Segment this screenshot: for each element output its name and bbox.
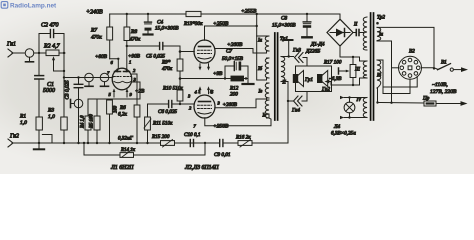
capacitor C2 bbox=[50, 30, 53, 38]
resistor R2 (volume pot) bbox=[46, 50, 65, 56]
svg-text:R14 1к: R14 1к bbox=[120, 148, 136, 153]
svg-text:~6,3В: ~6,3В bbox=[329, 76, 342, 82]
mains top wire bbox=[377, 27, 434, 69]
shield grommet on input wire bbox=[25, 49, 34, 62]
svg-text:R9*: R9* bbox=[161, 60, 171, 66]
svg-text:R15 200: R15 200 bbox=[151, 134, 170, 140]
resistor R9 bbox=[177, 52, 183, 91]
jack Гн3 chevron bbox=[295, 53, 304, 63]
svg-text:Iа: Iа bbox=[378, 33, 384, 38]
svg-text:С2 470: С2 470 bbox=[41, 22, 59, 29]
wire jack to speaker box bbox=[303, 58, 307, 67]
svg-text:Д1-Д4: Д1-Д4 bbox=[310, 41, 325, 48]
svg-text:Гр2: Гр2 bbox=[321, 87, 330, 93]
tube Л2 heater arrows bbox=[199, 64, 211, 71]
svg-text:Iб: Iб bbox=[257, 67, 263, 72]
wire secondary top to jack bbox=[281, 56, 294, 58]
tube Л2 grids bbox=[198, 50, 212, 53]
tube Л3 heater arrows bbox=[199, 86, 211, 94]
speaker wiring box bbox=[296, 66, 332, 92]
svg-text:С8: С8 bbox=[281, 16, 287, 22]
wire secondary bottom feedback bbox=[281, 82, 288, 144]
Тр2 winding II (HV) bbox=[363, 17, 367, 50]
Тр2 winding Iа (mains) bbox=[377, 27, 381, 40]
svg-text:R10 510к: R10 510к bbox=[162, 86, 183, 92]
tube Л2 envelope bbox=[194, 40, 215, 63]
svg-text:С3: С3 bbox=[65, 93, 71, 99]
tube Л3 anode bottom lead bbox=[205, 118, 271, 126]
tube Л2 cathode bbox=[198, 58, 211, 60]
resistor R10 bbox=[177, 90, 183, 104]
resistor R3 bbox=[61, 117, 67, 143]
svg-text:+90В: +90В bbox=[128, 54, 141, 60]
speaker Гр1 bbox=[293, 71, 303, 87]
svg-text:Д226Б: Д226Б bbox=[305, 49, 320, 55]
resistor R8 bbox=[124, 14, 130, 46]
bridge diode symbol bbox=[330, 29, 350, 37]
svg-text:С4: С4 bbox=[157, 19, 163, 26]
R2 wiper arrow bbox=[52, 56, 65, 72]
ground bus wire bbox=[14, 142, 205, 144]
svg-text:6,3В×0,25а: 6,3В×0,25а bbox=[331, 131, 356, 137]
resistor R5a vertical right bbox=[107, 99, 113, 143]
svg-text:+2В: +2В bbox=[135, 89, 145, 95]
svg-text:Пр: Пр bbox=[422, 96, 430, 102]
svg-text:R4 1,0: R4 1,0 bbox=[81, 115, 86, 129]
wire to C9 bbox=[205, 142, 219, 144]
node grid junction bbox=[63, 76, 65, 78]
svg-text:+250В: +250В bbox=[213, 124, 229, 130]
svg-text:200: 200 bbox=[230, 92, 238, 98]
svg-text:Iв: Iв bbox=[258, 90, 263, 95]
svg-text:470к: 470к bbox=[130, 36, 141, 43]
Тр2 winding Iб bbox=[377, 60, 381, 88]
wire C9 to R16 bbox=[223, 142, 238, 144]
svg-text:+255В: +255В bbox=[241, 9, 257, 15]
wire grid bus to R3 bbox=[63, 53, 65, 117]
svg-text:~110В,: ~110В, bbox=[432, 82, 448, 88]
hum pot R17 bbox=[350, 57, 356, 85]
svg-text:Гн3: Гн3 bbox=[292, 48, 301, 54]
lamp Л4 bbox=[344, 102, 355, 113]
svg-text:+80В: +80В bbox=[95, 54, 108, 60]
svg-text:+260В: +260В bbox=[227, 42, 243, 48]
svg-text:RadioLamp.net: RadioLamp.net bbox=[10, 2, 57, 9]
label C3 0,025 rotated bbox=[65, 80, 71, 100]
svg-text:127В, 220В: 127В, 220В bbox=[430, 89, 457, 95]
svg-text:Л1 6Н2П: Л1 6Н2П bbox=[110, 165, 134, 171]
capacitor C4 electrolytic bbox=[144, 14, 153, 35]
fuse Пр bbox=[376, 101, 467, 106]
svg-text:R13*30к: R13*30к bbox=[183, 21, 203, 27]
svg-text:R1: R1 bbox=[19, 114, 26, 120]
svg-text:1,0: 1,0 bbox=[48, 114, 55, 120]
shield grommet 2 on grid wire bbox=[85, 73, 94, 86]
bridge bottom vertex to heater line bbox=[339, 46, 341, 58]
tube Л2 anode top lead +250В feed bbox=[205, 26, 257, 40]
svg-text:1: 1 bbox=[129, 60, 131, 65]
wire Iа top bbox=[266, 35, 268, 37]
jack Гн1 input connector bbox=[8, 49, 25, 57]
svg-text:В1: В1 bbox=[441, 60, 447, 66]
svg-text:R17 100: R17 100 bbox=[323, 60, 342, 66]
bridge right vertex to Тр2 II terminal bbox=[353, 30, 364, 36]
svg-text:5000: 5000 bbox=[43, 88, 55, 94]
R1 wiper jog bbox=[42, 135, 52, 144]
wire input node A bbox=[34, 52, 46, 54]
Тр1 winding section links bbox=[267, 36, 270, 118]
socket bottom hook wires bbox=[377, 60, 417, 87]
capacitor C7 bypass bbox=[225, 62, 248, 79]
lower network wire from bus bbox=[84, 143, 120, 155]
svg-text:R6: R6 bbox=[119, 105, 126, 111]
speaker Гр2 bbox=[318, 71, 328, 87]
svg-text:+240В: +240В bbox=[86, 9, 103, 16]
svg-text:Тр2: Тр2 bbox=[377, 15, 385, 21]
svg-text:Гн1: Гн1 bbox=[6, 42, 16, 48]
resistor R13 on bus bbox=[186, 11, 201, 16]
svg-text:15,0×300В: 15,0×300В bbox=[155, 26, 179, 32]
svg-text:С6 0,025: С6 0,025 bbox=[158, 109, 177, 115]
B+ feed wire to Тр1 centre tap bbox=[257, 14, 267, 80]
Тр2 winding III (heater) bbox=[363, 61, 367, 78]
wire cathode to R4 bbox=[88, 98, 140, 100]
capacitor C1 bbox=[35, 53, 44, 117]
ground symbol cathode bbox=[243, 83, 254, 85]
bus junction R8 bbox=[126, 13, 128, 15]
wire C5 node to Л2 grid bbox=[180, 46, 194, 52]
svg-text:Iа: Iа bbox=[257, 39, 263, 44]
node A junction bbox=[38, 52, 40, 54]
svg-text:R11 510к: R11 510к bbox=[152, 121, 173, 127]
tube Л3 envelope bbox=[194, 95, 215, 118]
svg-text:С9 0,01: С9 0,01 bbox=[214, 152, 231, 158]
svg-text:Гн2: Гн2 bbox=[9, 134, 19, 140]
background paper bbox=[0, 0, 474, 174]
tube Л2 anode bbox=[199, 46, 211, 48]
potentiometer R14 bbox=[120, 143, 205, 157]
capacitor C3 bbox=[74, 78, 83, 144]
heater arrow ~6,3В bbox=[325, 80, 332, 85]
wire C5 to R9 node bbox=[163, 45, 180, 47]
Тр1 winding Iг bbox=[265, 100, 269, 118]
svg-text:III: III bbox=[354, 68, 360, 73]
svg-text:15,0×300В: 15,0×300В bbox=[272, 23, 296, 29]
capacitor C8 electrolytic bbox=[302, 14, 311, 37]
svg-text:+9В: +9В bbox=[213, 71, 223, 77]
resistor R5 bbox=[94, 99, 100, 143]
tube Л2 screen lead right bbox=[215, 49, 267, 54]
wire Гн4 to box bottom bbox=[288, 92, 307, 102]
svg-text:Л4: Л4 bbox=[333, 123, 341, 130]
svg-text:470к: 470к bbox=[162, 65, 173, 72]
switch В1 bbox=[438, 64, 469, 72]
tube Л1 pin 6 lead bbox=[110, 59, 119, 69]
svg-text:470к: 470к bbox=[91, 34, 102, 41]
tube Л3 cathode bbox=[198, 113, 211, 115]
Тр1 secondary II bbox=[281, 57, 285, 82]
svg-text:1,0: 1,0 bbox=[20, 120, 27, 126]
tube Л3 anode bbox=[199, 101, 211, 103]
tube Л1 pin 2 lead to R6 bbox=[132, 74, 137, 105]
ground symbol bbox=[34, 143, 44, 149]
capacitor C5 bbox=[160, 43, 163, 50]
wire Л1 anode to C5 bbox=[127, 45, 159, 47]
Тр1 winding Iа bbox=[265, 36, 269, 51]
svg-text:Iб: Iб bbox=[376, 74, 382, 79]
node phase splitter bbox=[179, 103, 181, 105]
top supply bus +240В bbox=[110, 13, 340, 15]
bus junction dots bbox=[38, 142, 149, 144]
svg-text:+260В: +260В bbox=[223, 102, 238, 108]
lamp Л4 circuit wires bbox=[340, 96, 367, 119]
Тр2 winding IV (lamp) bbox=[363, 98, 367, 118]
wire to Л3 grid bbox=[180, 103, 194, 105]
svg-text:II: II bbox=[353, 23, 358, 28]
wire Iа top to supply vertical bbox=[257, 35, 267, 37]
tube Л1 pin 3 cathode lead bbox=[132, 82, 140, 99]
RadioLamp.net watermark logo bbox=[1, 2, 57, 10]
heater top wire bbox=[340, 57, 360, 61]
tube Л1 heater leads bbox=[113, 89, 129, 98]
tube Л1 envelope bbox=[112, 68, 132, 90]
wire to Л1 grid pin 7 bbox=[64, 77, 113, 79]
capacitor C2 top bypass wires bbox=[39, 34, 64, 54]
svg-text:6,2к: 6,2к bbox=[118, 112, 127, 118]
tube Л3 grids bbox=[198, 105, 212, 108]
tube Л1 pin 1 lead to C5 bbox=[126, 46, 128, 69]
tube Л1 cathodes bbox=[114, 82, 131, 83]
tube Л1 anode plates bbox=[115, 69, 130, 71]
chassis T bar output jack bbox=[285, 40, 293, 57]
svg-text:В2: В2 bbox=[409, 49, 415, 55]
bridge rectifier Д1-Д4 bbox=[327, 19, 353, 46]
capacitor C6 bbox=[148, 101, 181, 108]
Тр1 winding Iб bbox=[265, 58, 269, 78]
Тр1 core bbox=[275, 33, 278, 120]
svg-text:R3: R3 bbox=[47, 108, 54, 114]
resistor R1 bbox=[36, 117, 42, 143]
svg-text:Гр1: Гр1 bbox=[304, 77, 313, 83]
shield grommet on C3 wire bbox=[71, 99, 83, 108]
resistor R7 bbox=[107, 14, 113, 59]
wire R12 to ground bbox=[244, 79, 249, 84]
jack Гн4 chevron bbox=[294, 96, 303, 106]
tube Л3 screen lead right bbox=[215, 99, 267, 108]
potentiometer R11 bbox=[144, 104, 151, 143]
svg-text:С7: С7 bbox=[226, 49, 232, 55]
capacitor C9 bbox=[220, 140, 223, 147]
tube socket В2 voltage selector bbox=[399, 56, 422, 79]
svg-text:R5 100: R5 100 bbox=[90, 114, 95, 129]
bus junction C4 bbox=[147, 13, 149, 15]
svg-text:0,025: 0,025 bbox=[65, 80, 71, 92]
shield grommet 3 on grid wire bbox=[100, 73, 109, 86]
potentiometer R15 on bus bbox=[161, 140, 175, 148]
capacitor C10 bbox=[190, 140, 193, 147]
cathode bus wire Л2/Л3 bbox=[180, 78, 231, 80]
svg-text:50,0×15В: 50,0×15В bbox=[222, 56, 244, 62]
svg-text:R16 2к: R16 2к bbox=[235, 135, 251, 141]
tube Л1 grids bbox=[114, 76, 132, 78]
svg-text:Л2,Л3 6П14П: Л2,Л3 6П14П bbox=[184, 164, 219, 171]
feedback resistor R16 bbox=[230, 140, 288, 148]
svg-text:R8: R8 bbox=[130, 29, 137, 35]
socket to switch wire bbox=[422, 68, 438, 70]
svg-text:R7: R7 bbox=[90, 28, 97, 34]
svg-text:Гн4: Гн4 bbox=[291, 107, 300, 114]
socket left pin wire down bbox=[392, 67, 399, 69]
heater bottom wire bbox=[331, 78, 360, 85]
svg-text:1: 1 bbox=[198, 89, 200, 94]
R17 wiper arrow bbox=[339, 68, 350, 74]
bus corner into bridge top bbox=[339, 14, 341, 20]
Тр1 winding Iв bbox=[265, 83, 269, 98]
node feedback junction bbox=[204, 142, 206, 144]
svg-text:R2 4,7: R2 4,7 bbox=[43, 43, 61, 50]
resistor R4 (cathode) bbox=[85, 99, 91, 143]
Тр2 core bbox=[371, 13, 374, 120]
svg-text:0,32мГ: 0,32мГ bbox=[118, 136, 133, 141]
jack Гн2 input connector bbox=[8, 139, 25, 147]
svg-text:С10 0,1: С10 0,1 bbox=[184, 132, 201, 138]
resistor R12 bbox=[231, 76, 244, 81]
winding III to heater wires bbox=[360, 61, 368, 78]
svg-text:Iг: Iг bbox=[262, 114, 267, 119]
resistor R6 bbox=[134, 105, 140, 143]
